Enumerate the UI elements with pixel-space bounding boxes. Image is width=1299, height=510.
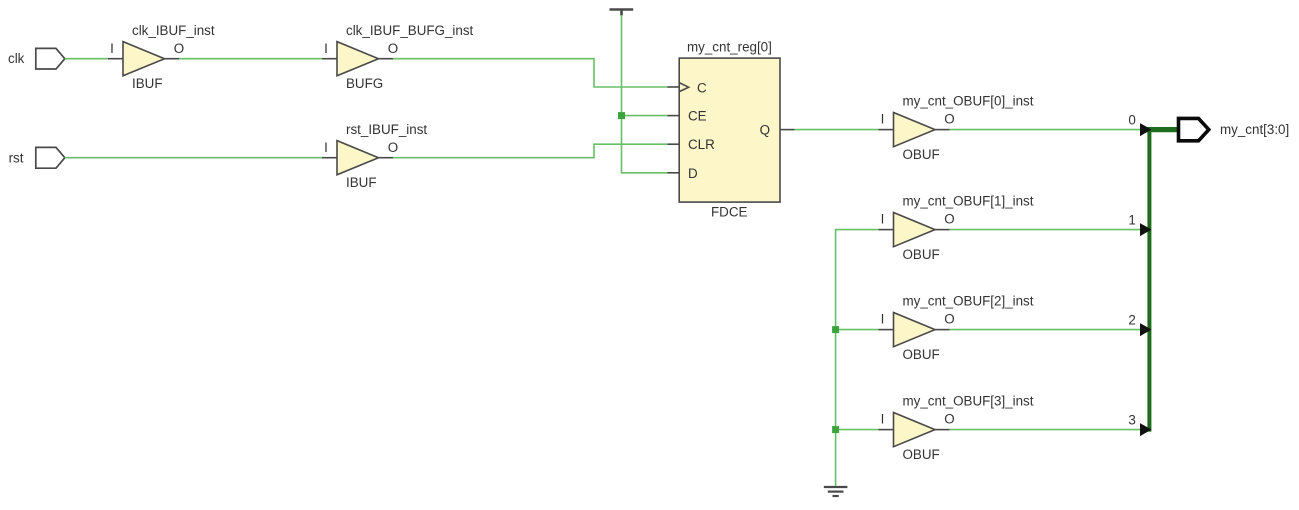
buffer body [894,213,936,247]
bus tap arrow bit 2 [1140,323,1152,336]
pin O stub [379,58,394,60]
svg-text:rst_IBUF_inst: rst_IBUF_inst [346,122,427,137]
svg-text:my_cnt_OBUF[0]_inst: my_cnt_OBUF[0]_inst [903,94,1034,109]
pin O stub [935,129,950,131]
svg-text:my_cnt_reg[0]: my_cnt_reg[0] [687,40,772,55]
buffer body [894,313,936,347]
bus my_cnt horizontal to port [1147,127,1178,132]
pin O stub [935,429,950,431]
svg-text:I: I [881,212,885,227]
wire rst to IBUF [65,157,322,159]
wire OBUF1 to bus [950,229,1141,231]
svg-text:O: O [944,412,954,427]
pin I stub [322,157,337,159]
svg-text:FDCE: FDCE [711,205,748,220]
svg-text:O: O [388,140,398,155]
pin C clock chevron [680,83,689,92]
svg-text:O: O [944,312,954,327]
svg-text:O: O [388,41,398,56]
pin Q stub [780,129,795,131]
svg-text:1: 1 [1128,212,1135,227]
svg-text:rst: rst [9,150,24,165]
wire clk to IBUF [65,58,108,60]
register body [679,58,780,202]
svg-text:my_cnt_OBUF[2]_inst: my_cnt_OBUF[2]_inst [903,294,1034,309]
buffer my_cnt_OBUF[3]_inst [879,394,1034,462]
bus my_cnt vertical trunk [1147,128,1151,432]
pin I stub [879,429,894,431]
svg-text:I: I [324,41,328,56]
svg-text:OBUF: OBUF [903,447,940,462]
svg-text:D: D [688,166,698,181]
wire BUFG to FDCE C [393,59,668,87]
pin C stub [668,86,680,88]
svg-text:my_cnt_OBUF[1]_inst: my_cnt_OBUF[1]_inst [903,194,1034,209]
output port my_cnt[3:0] [1179,118,1209,140]
pin I stub [108,58,123,60]
bus tap arrow bit 1 [1140,223,1152,236]
ground symbol [824,487,848,496]
svg-text:I: I [324,140,328,155]
wire OBUF2 to bus [950,329,1141,331]
svg-text:CE: CE [688,109,707,124]
pin I stub [879,329,894,331]
buffer clk_IBUF_inst [108,23,215,91]
wire Q to OBUF0 [795,129,879,131]
svg-text:IBUF: IBUF [132,76,163,91]
pin O stub [935,329,950,331]
buffer body [123,42,165,76]
pin I stub [879,229,894,231]
svg-text:clk_IBUF_inst: clk_IBUF_inst [132,23,215,38]
wire gnd branch to OBUF2 [836,329,879,331]
svg-text:my_cnt_OBUF[3]_inst: my_cnt_OBUF[3]_inst [903,394,1034,409]
buffer my_cnt_OBUF[1]_inst [879,194,1034,262]
svg-text:OBUF: OBUF [903,347,940,362]
buffer body [894,413,936,447]
svg-text:OBUF: OBUF [903,147,940,162]
wire rst IBUF to FDCE CLR [393,144,668,158]
svg-text:C: C [697,81,707,96]
buffer body [894,113,936,147]
pin D stub [668,172,680,174]
pin CLR stub [668,143,680,145]
pin I stub [879,129,894,131]
svg-text:IBUF: IBUF [346,175,377,190]
svg-text:my_cnt[3:0]: my_cnt[3:0] [1220,122,1289,137]
svg-text:clk_IBUF_BUFG_inst: clk_IBUF_BUFG_inst [346,23,474,38]
svg-text:I: I [110,41,114,56]
buffer my_cnt_OBUF[0]_inst [879,94,1034,162]
junction node OBUF3 branch [832,426,839,433]
bus tap arrow bit 0 [1140,123,1152,136]
junction node OBUF2 branch [832,326,839,333]
pin CE stub [668,115,680,117]
wire VCC branch to CE [622,115,668,117]
svg-text:O: O [944,112,954,127]
svg-text:CLR: CLR [688,137,715,152]
pin O stub [935,229,950,231]
buffer body [337,42,379,76]
svg-text:BUFG: BUFG [346,76,383,91]
bus tap arrow bit 3 [1140,423,1152,436]
wire OBUF0 to bus [950,129,1141,131]
pin O stub [165,58,180,60]
svg-text:O: O [174,41,184,56]
buffer body [337,141,379,175]
buffer my_cnt_OBUF[2]_inst [879,294,1034,362]
svg-text:3: 3 [1128,412,1135,427]
svg-text:2: 2 [1128,312,1135,327]
svg-text:OBUF: OBUF [903,247,940,262]
svg-text:I: I [881,412,885,427]
input port rst [36,147,65,168]
wire gnd branch to OBUF3 [836,429,879,431]
buffer clk_IBUF_BUFG_inst [322,23,474,91]
svg-text:clk: clk [8,51,25,66]
input port clk [36,48,65,69]
pin O stub [379,157,394,159]
junction node CE branch [618,112,625,119]
svg-text:O: O [944,212,954,227]
svg-text:Q: Q [760,123,770,138]
svg-text:I: I [881,112,885,127]
buffer rst_IBUF_inst [322,122,427,190]
wire OBUF3 to bus [950,429,1141,431]
svg-text:I: I [881,312,885,327]
pin I stub [322,58,337,60]
wire IBUF to BUFG [179,58,322,60]
wire ground to OBUF1 input [836,230,879,486]
power VCC const1 bar [610,10,634,16]
flip-flop my_cnt_reg[0] FDCE [668,40,795,220]
svg-text:0: 0 [1128,112,1135,127]
wire VCC vertical to CE/D [622,15,668,173]
